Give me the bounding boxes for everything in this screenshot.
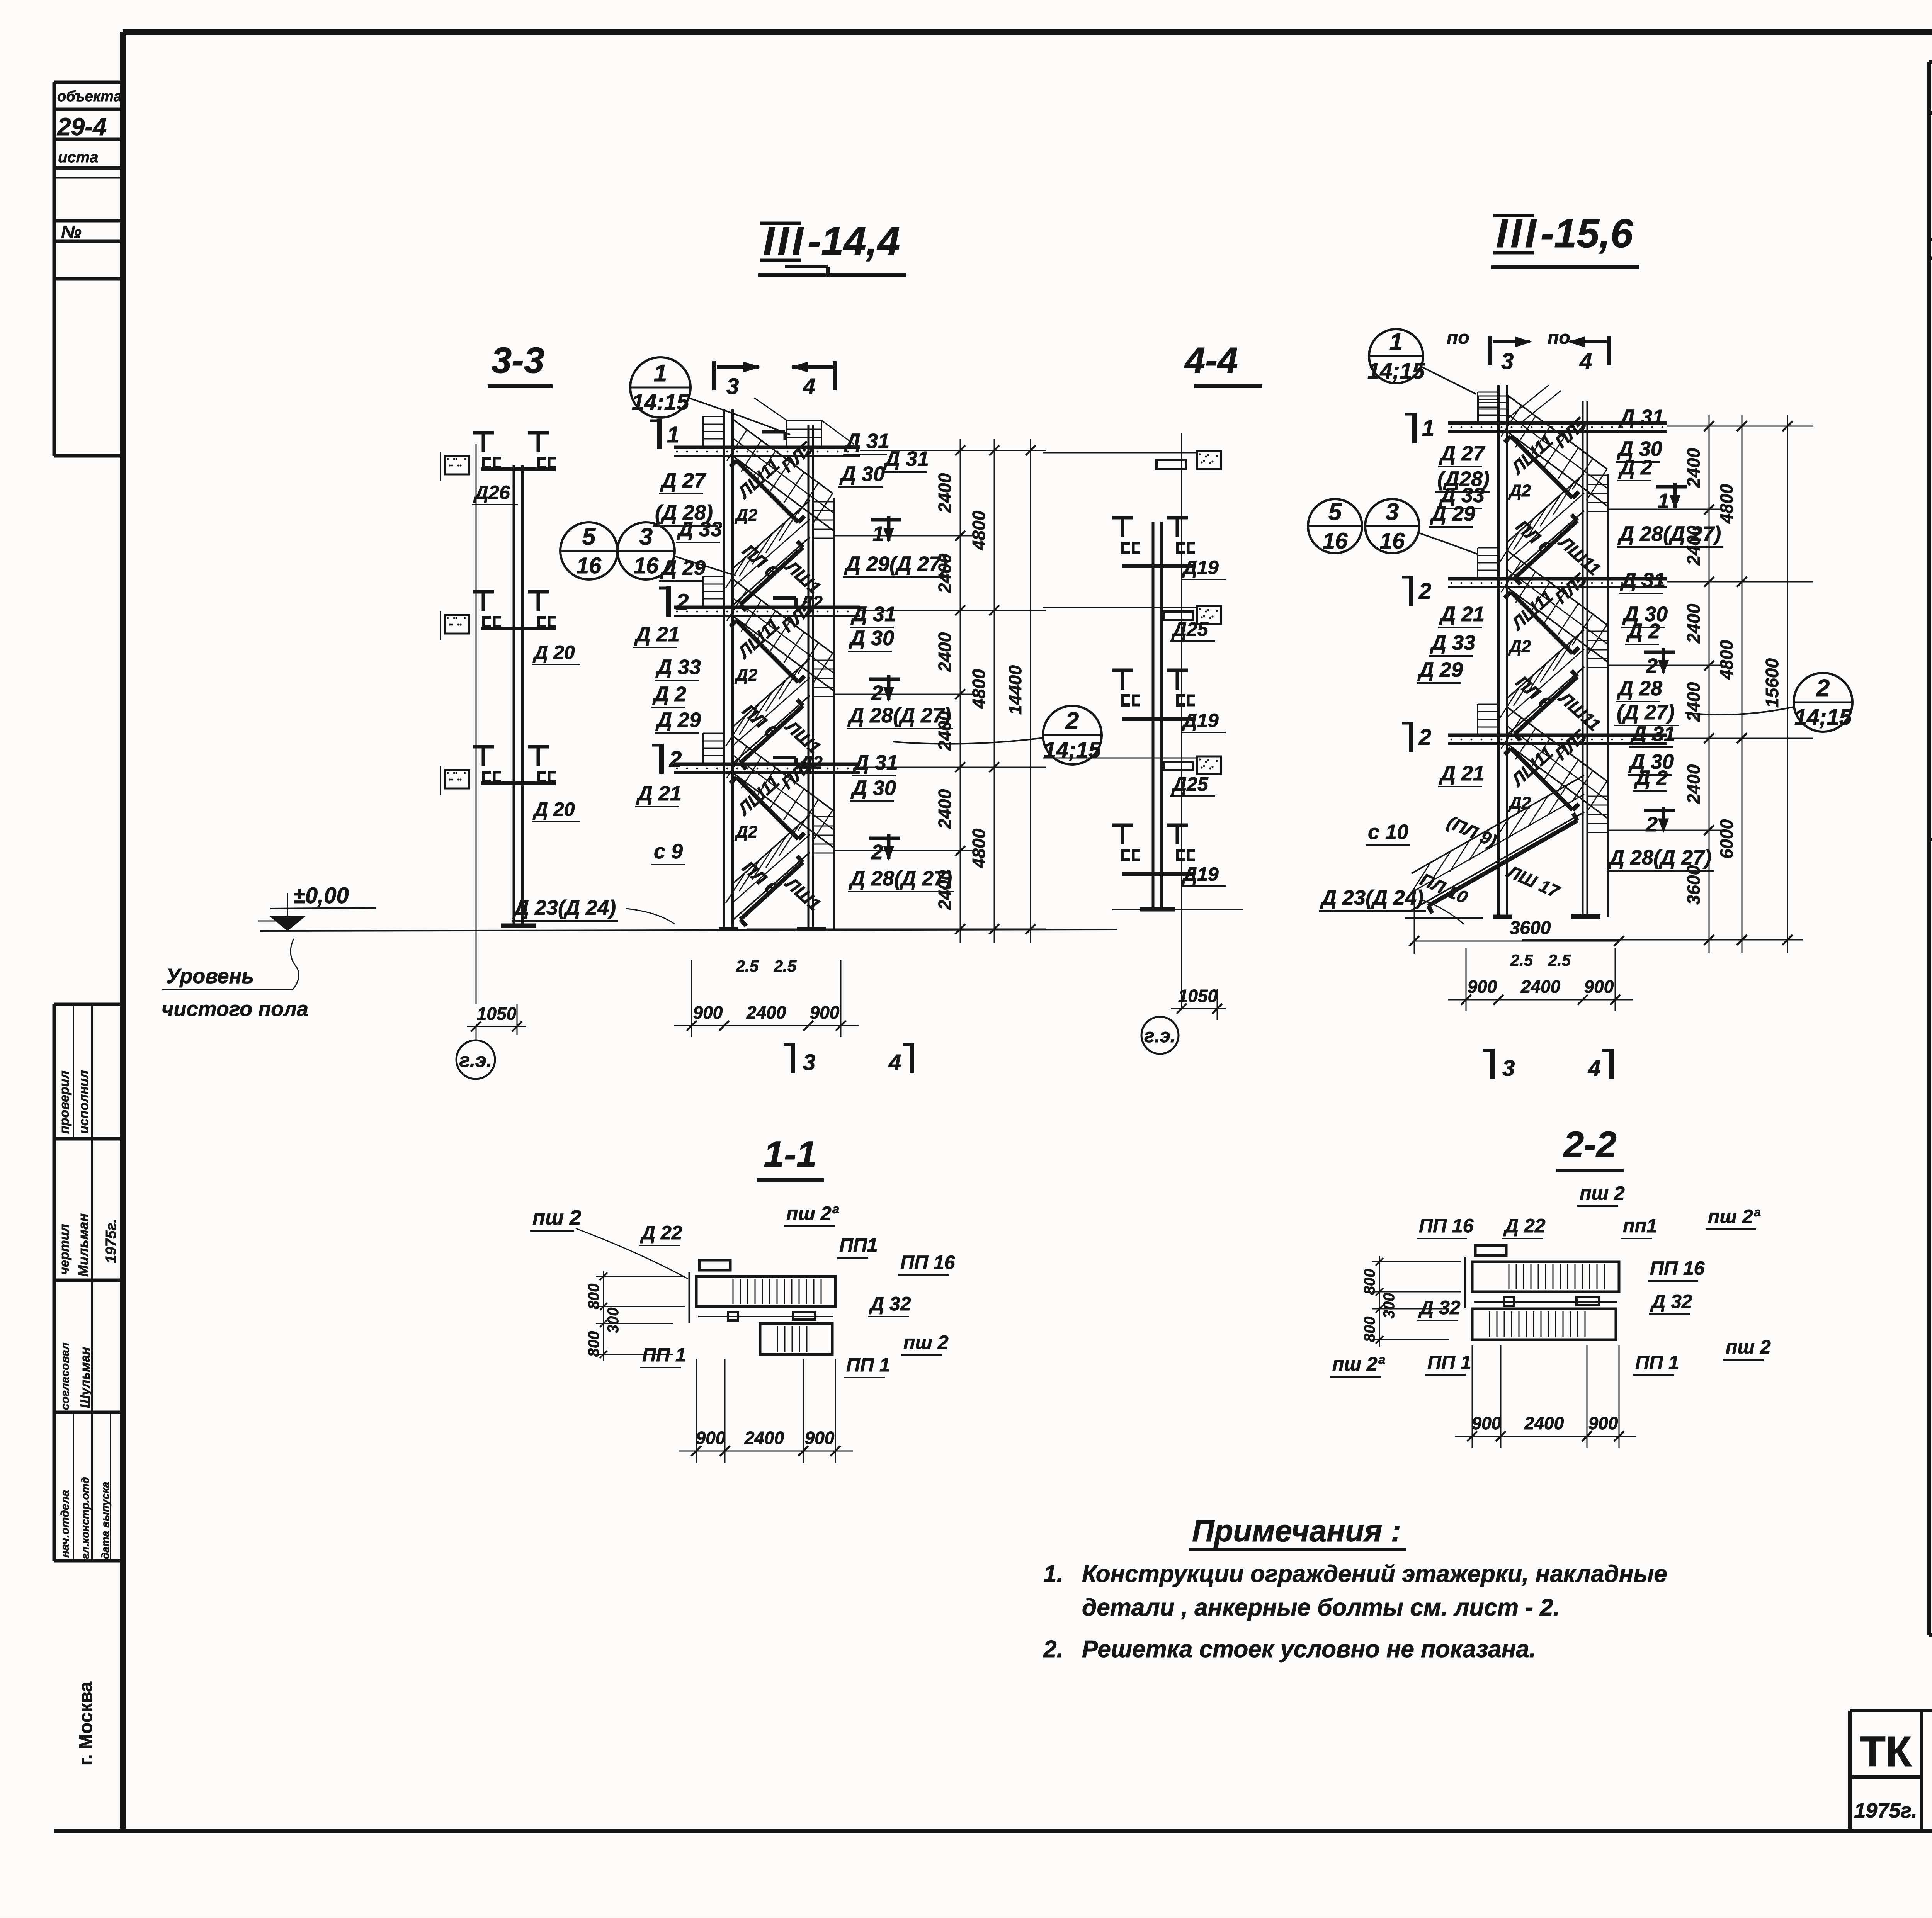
cut marks (15,6) left: [1412, 413, 1417, 443]
Д2 corner marks: [773, 596, 796, 600]
stair III-15,6 flight down-right 1: [1507, 395, 1607, 469]
svg-text:Д 30: Д 30: [849, 627, 894, 650]
svg-text:16: 16: [634, 553, 659, 578]
stair III-14,4 platform 2: [674, 606, 860, 609]
sheet frame: [123, 29, 1932, 35]
svg-text:1: 1: [654, 360, 667, 387]
svg-text:Мильман: Мильман: [75, 1213, 91, 1277]
svg-text:Д2: Д2: [1508, 793, 1531, 812]
svg-text:2: 2: [1646, 813, 1658, 836]
svg-text:900: 900: [1584, 977, 1614, 997]
svg-text:чертил: чертил: [57, 1224, 72, 1275]
svg-text:Д 31: Д 31: [850, 603, 896, 626]
svg-text:Д 20: Д 20: [532, 642, 575, 663]
stair III-14,4 cropped upper flight: [786, 420, 787, 447]
svg-text:пш 2: пш 2: [903, 1332, 949, 1353]
svg-text:№: №: [61, 222, 82, 242]
stair III-14,4 flight down-left 3: [733, 815, 810, 884]
plan left wall tick: [689, 1272, 690, 1323]
svg-text:1: 1: [667, 422, 679, 447]
svg-text:Д25: Д25: [1171, 618, 1209, 640]
svg-text:Д 21: Д 21: [1439, 762, 1485, 785]
section 4-4 bracket level 1: [1112, 516, 1133, 520]
stair III-14,4 landing rail block 3: [812, 817, 814, 853]
svg-text:III: III: [763, 219, 806, 264]
dimension top extension line: [1039, 450, 1046, 451]
stair III-14,4 stringer 1b: [740, 547, 803, 605]
svg-text:15600: 15600: [1762, 658, 1782, 708]
section 3-3 slab level 2: [445, 615, 469, 634]
stair III-14,4 landing rail block 1: [812, 502, 814, 538]
grid mark г.э. 4-4: [1141, 1017, 1179, 1054]
svg-text:4800: 4800: [969, 669, 989, 709]
stair III-15,6 stringer 3a: [1511, 748, 1573, 810]
svg-text:4800: 4800: [1716, 484, 1736, 524]
svg-text:пш 2ª: пш 2ª: [786, 1203, 839, 1224]
svg-text:чистого пола: чистого пола: [162, 997, 308, 1021]
svg-text:Д 20: Д 20: [532, 798, 575, 820]
svg-text:300: 300: [1381, 1293, 1398, 1319]
svg-text:Д 29: Д 29: [1430, 502, 1475, 525]
section 3-3 extension line: [476, 444, 477, 1004]
stair III-15,6 stringer 1b: [1515, 521, 1577, 578]
svg-text:Решетка стоек условно не: Решетка стоек условно не показана.: [1082, 1636, 1536, 1663]
view bubble 1 14;15 (15,6): [1369, 329, 1423, 383]
stair III-15,6 landing rail block 2: [1587, 631, 1588, 668]
section 3-3 bracket level 2: [473, 590, 494, 594]
svg-text:3600: 3600: [1510, 918, 1551, 938]
section 4-4 slab stub level 2: [1197, 606, 1221, 624]
svg-text:800: 800: [1361, 1269, 1378, 1295]
svg-text:1050: 1050: [477, 1004, 517, 1024]
svg-text:Д2: Д2: [1508, 481, 1531, 500]
svg-text:16: 16: [1323, 528, 1348, 554]
plan lower flight bar: [760, 1323, 832, 1354]
svg-text:Д19: Д19: [1182, 710, 1219, 731]
bubbles 5/16 3/16 (15,6): [1308, 499, 1362, 553]
svg-text:1: 1: [1422, 416, 1434, 441]
svg-text:Д 31: Д 31: [1620, 569, 1665, 592]
section 3-3 bracket level 1: [473, 431, 494, 435]
svg-text:2400: 2400: [746, 1002, 786, 1023]
plan lower flight bar: [1472, 1309, 1616, 1340]
stair III-15,6 stringer 2b: [1515, 677, 1577, 734]
svg-text:пш 2ª: пш 2ª: [1708, 1206, 1761, 1227]
svg-text:Шульман: Шульман: [78, 1347, 93, 1408]
section 3-3 bracket level 3: [473, 745, 494, 749]
svg-text:5: 5: [582, 523, 596, 550]
stair III-14,4 stringer 2b: [740, 706, 803, 763]
section 4-4 slab stub level 3: [1197, 756, 1221, 774]
svg-text:Д 28(Д 27): Д 28(Д 27): [1608, 846, 1711, 869]
svg-text:Д 33: Д 33: [655, 656, 701, 679]
stair III-15,6 stringer 1a: [1511, 436, 1573, 498]
svg-text:2400: 2400: [1684, 448, 1704, 488]
svg-text:2400: 2400: [935, 789, 955, 829]
svg-text:2: 2: [871, 841, 883, 864]
svg-text:Д 2: Д 2: [1634, 766, 1668, 790]
svg-text:3: 3: [639, 523, 653, 550]
svg-text:дата выпуска: дата выпуска: [99, 1482, 111, 1559]
svg-text:Д 32: Д 32: [1650, 1291, 1692, 1312]
svg-text:г.э.: г.э.: [459, 1049, 492, 1072]
dimension chain 2400: [960, 439, 961, 943]
svg-text:Д 28(Д 27): Д 28(Д 27): [1617, 522, 1721, 545]
svg-text:2: 2: [676, 590, 689, 615]
ground line: [260, 929, 1117, 931]
svg-text:300: 300: [605, 1308, 622, 1334]
svg-text:2400: 2400: [1684, 764, 1704, 804]
plan left wall tick: [1464, 1257, 1466, 1308]
svg-text:ПП 16: ПП 16: [900, 1252, 956, 1273]
svg-text:14;15: 14;15: [1794, 705, 1852, 730]
stair III-14,4 left rail block 3: [702, 733, 704, 763]
svg-text:Д 29: Д 29: [660, 556, 706, 579]
title block frame: [1850, 1709, 1932, 1712]
stair III-14,4 left column: [723, 409, 725, 929]
svg-text:Д 31: Д 31: [1630, 722, 1675, 746]
svg-text:Д 32: Д 32: [1418, 1297, 1461, 1318]
svg-text:2400: 2400: [935, 632, 955, 672]
plan top small plate: [699, 1260, 730, 1270]
svg-text:1.: 1.: [1043, 1561, 1063, 1587]
svg-text:Д 23(Д 24): Д 23(Д 24): [512, 896, 616, 919]
svg-text:ТК: ТК: [1860, 1728, 1912, 1775]
stair III-14,4 platform 3: [674, 763, 860, 766]
svg-text:Д 33: Д 33: [677, 518, 722, 541]
svg-text:4800: 4800: [969, 828, 989, 868]
svg-text:6000: 6000: [1716, 819, 1736, 859]
svg-text:Д 23(Д 24): Д 23(Д 24): [1320, 886, 1423, 909]
svg-text:Д 27: Д 27: [660, 469, 707, 492]
svg-text:2400: 2400: [1524, 1413, 1564, 1433]
svg-text:4: 4: [803, 374, 815, 399]
svg-text:2: 2: [1646, 654, 1658, 678]
svg-text:4: 4: [1588, 1056, 1600, 1081]
svg-text:2.5: 2.5: [774, 957, 797, 975]
selection table outer: [1929, 60, 1932, 64]
TK box: [1850, 1775, 1921, 1779]
svg-text:Д 21: Д 21: [634, 623, 680, 646]
stair III-14,4 flight down-right 3: [733, 736, 833, 810]
corner marks top: [785, 265, 828, 268]
svg-text:4: 4: [888, 1050, 901, 1075]
stair III-14,4 stringer 1a: [736, 460, 798, 522]
svg-text:III: III: [1496, 211, 1539, 256]
svg-text:29-4: 29-4: [57, 113, 107, 141]
svg-text:2-2: 2-2: [1563, 1124, 1616, 1165]
svg-text:1-1: 1-1: [764, 1134, 816, 1175]
left stamp bottom boxes: [54, 1003, 123, 1006]
svg-text:2: 2: [1418, 579, 1431, 604]
svg-text:с 9: с 9: [654, 840, 683, 863]
ground line 4-4: [1112, 909, 1243, 910]
svg-text:Д 2: Д 2: [1618, 456, 1652, 479]
svg-text:Д 31: Д 31: [883, 447, 929, 471]
svg-text:4: 4: [1579, 349, 1592, 374]
svg-text:Д 29: Д 29: [655, 708, 701, 732]
svg-text:900: 900: [1472, 1413, 1502, 1433]
svg-text:16: 16: [577, 553, 602, 578]
svg-text:2400: 2400: [1520, 977, 1561, 997]
svg-text:3: 3: [726, 374, 739, 399]
plan middle plates: [1474, 1301, 1617, 1303]
svg-text:3: 3: [1386, 499, 1399, 525]
svg-text:Д 28(Д 27): Д 28(Д 27): [847, 704, 951, 727]
svg-text:Д 31: Д 31: [844, 430, 889, 453]
svg-text:ПП 16: ПП 16: [1419, 1215, 1474, 1237]
stair III-14,4 left rail block 2: [702, 576, 704, 606]
svg-text:14:15: 14:15: [632, 390, 689, 415]
svg-text:900: 900: [1468, 977, 1497, 997]
dimension 1050 under 4-4: [1217, 989, 1218, 1020]
svg-text:Д2: Д2: [798, 753, 823, 773]
view bubble 2 14;15 (15,6): [1794, 673, 1852, 732]
bottom section marks 3 4: [791, 1043, 795, 1073]
svg-text:Примечания :: Примечания :: [1192, 1514, 1401, 1548]
dimension bottom extension line: [747, 929, 1046, 930]
plan top small plate: [1475, 1245, 1506, 1255]
stair III-15,6 flight down-right 3: [1507, 707, 1607, 781]
svg-text:Д 27: Д 27: [1439, 442, 1486, 465]
svg-text:1975г.: 1975г.: [103, 1219, 119, 1263]
svg-text:Д2: Д2: [1508, 637, 1531, 656]
svg-text:г.э.: г.э.: [1144, 1025, 1175, 1046]
stair III-14,4 flight down-right 2: [733, 579, 833, 654]
dimension mid extension lines: [834, 535, 974, 537]
svg-text:1050: 1050: [1178, 986, 1218, 1006]
svg-text:Д19: Д19: [1182, 863, 1219, 885]
svg-text:нач.отдела: нач.отдела: [59, 1490, 71, 1558]
svg-text:1: 1: [1658, 489, 1669, 513]
cut marks mid right: [871, 518, 901, 522]
svg-text:3: 3: [1501, 349, 1514, 374]
top section mark 3: [712, 361, 716, 390]
stair III-15,6 bottom ground line: [1405, 917, 1483, 919]
stair III-14,4 left rail block 1: [702, 416, 704, 447]
stair III-15,6 long bottom flight: [1412, 775, 1584, 873]
svg-text:Д 31: Д 31: [852, 751, 898, 774]
svg-text:исполнил: исполнил: [77, 1070, 91, 1134]
svg-text:Д 21: Д 21: [1439, 603, 1485, 626]
section 4-4 extension line: [1181, 433, 1182, 1009]
svg-text:ПП 1: ПП 1: [1427, 1352, 1471, 1373]
svg-text:Д 21: Д 21: [636, 782, 682, 805]
svg-text:Д26: Д26: [473, 482, 510, 503]
stair III-15,6 flight down-left 2: [1507, 630, 1584, 698]
svg-text:пп1: пп1: [1623, 1215, 1657, 1237]
view bubble 2 14:15: [1043, 706, 1102, 764]
svg-text:2: 2: [1065, 708, 1079, 734]
svg-text:14400: 14400: [1005, 665, 1025, 715]
section 4-4 bracket level 3: [1112, 824, 1133, 827]
svg-text:ПП 1: ПП 1: [1635, 1352, 1679, 1373]
plan left dims 800 300 800: [596, 1276, 685, 1277]
stair III-14,4 stringer 3a: [736, 777, 798, 839]
svg-text:800: 800: [1361, 1317, 1378, 1342]
section cut mark 1 left: [657, 419, 662, 449]
stair III-15,6 platform 3: [1448, 734, 1667, 737]
svg-text:ПП1: ПП1: [839, 1234, 878, 1256]
svg-text:2400: 2400: [1684, 682, 1704, 722]
svg-text:Д 30: Д 30: [850, 776, 896, 800]
svg-text:900: 900: [696, 1428, 726, 1448]
svg-text:900: 900: [805, 1428, 835, 1448]
svg-text:-14,4: -14,4: [808, 219, 900, 264]
svg-text:Д 22: Д 22: [640, 1222, 682, 1244]
svg-text:2.5: 2.5: [1548, 951, 1571, 969]
svg-text:4-4: 4-4: [1184, 340, 1238, 381]
stair III-15,6 left column: [1497, 385, 1500, 917]
svg-text:14;15: 14;15: [1044, 737, 1101, 763]
stair III-14,4 stringer 2a: [736, 620, 798, 682]
svg-text:900: 900: [810, 1002, 840, 1023]
dimension bottom extension line: [1522, 939, 1803, 941]
svg-text:4800: 4800: [1716, 640, 1736, 680]
stair III-14,4 stringer 3b: [740, 862, 803, 919]
stair III-14,4 flight down-right 1: [733, 419, 833, 494]
svg-text:пш 2: пш 2: [1726, 1336, 1771, 1358]
stair III-15,6 left rail block 3: [1477, 704, 1478, 734]
table group separator: [1929, 838, 1932, 841]
dimension top extension line: [1803, 426, 1813, 427]
svg-text:900: 900: [1588, 1413, 1618, 1433]
stair III-14,4 right column: [808, 425, 810, 929]
stair III-15,6 landing rail block 1: [1587, 475, 1588, 511]
cut marks (15,6) right: [1656, 485, 1687, 489]
svg-text:2400: 2400: [1684, 603, 1704, 644]
svg-text:4800: 4800: [969, 510, 989, 550]
stair III-15,6 stringer 2a: [1511, 592, 1573, 654]
svg-text:5: 5: [1328, 499, 1342, 525]
svg-text:14;15: 14;15: [1367, 358, 1425, 384]
svg-text:2: 2: [1418, 725, 1431, 750]
plan dimension 900-2400-900: [1472, 1345, 1473, 1448]
section 3-3 slab level 3: [445, 770, 469, 788]
dimension chain 4800: [1742, 415, 1743, 953]
plan upper flight bar: [696, 1276, 835, 1306]
svg-text:Д 30: Д 30: [839, 462, 885, 486]
stair III-15,6 right column: [1582, 401, 1584, 917]
stair III-15,6 flight down-right 2: [1507, 550, 1607, 625]
section 4-4 bracket level 2: [1112, 669, 1133, 672]
svg-text:3: 3: [803, 1050, 815, 1075]
svg-text:800: 800: [585, 1331, 602, 1357]
svg-text:пш 2: пш 2: [1580, 1182, 1625, 1204]
svg-text:1: 1: [1389, 329, 1403, 355]
dimension 3600 (15,6): [1414, 888, 1415, 954]
dimension chain 4800: [994, 439, 995, 943]
svg-text:16: 16: [1380, 528, 1405, 554]
svg-text:согласовал: согласовал: [59, 1342, 71, 1410]
stair III-14,4 flight down-left 1: [733, 500, 810, 569]
svg-text:проверил: проверил: [57, 1070, 72, 1134]
left stamp top boxes: [54, 81, 123, 84]
svg-text:Д25: Д25: [1171, 773, 1209, 795]
svg-text:3: 3: [1502, 1056, 1515, 1081]
plan upper flight bar: [1472, 1262, 1619, 1292]
svg-text:ПП 16: ПП 16: [1650, 1257, 1705, 1279]
dimension chain total: [1787, 415, 1788, 953]
dimension 1050 under 3-3: [517, 1004, 518, 1035]
svg-text:гл.констр.отд: гл.констр.отд: [79, 1477, 91, 1559]
svg-text:Д 29(Д 27): Д 29(Д 27): [844, 552, 947, 576]
grid mark г.э.: [456, 1040, 495, 1079]
svg-text:пш 2: пш 2: [532, 1206, 581, 1229]
svg-text:800: 800: [585, 1284, 602, 1310]
svg-text:Конструкции ограждений этаже: Конструкции ограждений этажерки, накладн…: [1082, 1561, 1667, 1587]
svg-text:±0,00: ±0,00: [293, 883, 349, 908]
svg-text:(Д 27): (Д 27): [1617, 701, 1675, 724]
section 4-4 column stand: [1152, 522, 1155, 909]
svg-text:по: по: [1447, 328, 1469, 348]
svg-text:Д 33: Д 33: [1430, 631, 1475, 654]
svg-text:Д 31: Д 31: [1618, 406, 1664, 429]
stair III-15,6 left rail block 2: [1477, 548, 1478, 578]
section 4-4 slab stub level 1: [1197, 451, 1221, 469]
cut marks mid left: [666, 586, 671, 617]
svg-text:Д2: Д2: [734, 822, 758, 841]
svg-text:900: 900: [693, 1002, 723, 1023]
svg-text:г. Москва: г. Москва: [76, 1682, 96, 1765]
bottom section marks 3 4 (15,6): [1490, 1049, 1495, 1079]
svg-text:иста: иста: [58, 149, 99, 166]
stair III-15,6 platform 2: [1448, 577, 1667, 581]
bottom dimension 900-2400-900: [691, 960, 692, 1037]
svg-text:ПП 1: ПП 1: [846, 1354, 890, 1376]
svg-text:Д 32: Д 32: [869, 1293, 911, 1315]
svg-text:3-3: 3-3: [491, 340, 544, 381]
svg-text:детали , анкерные болты см.: детали , анкерные болты см. лист - 2.: [1082, 1594, 1560, 1621]
dimension chain total: [1030, 439, 1031, 943]
plan middle plates: [698, 1316, 833, 1317]
plan left dims 800 300 800: [1372, 1261, 1461, 1262]
svg-text:Д 22: Д 22: [1503, 1215, 1546, 1237]
stair III-15,6 left rail block 1: [1477, 392, 1478, 422]
svg-text:по: по: [1548, 328, 1570, 348]
svg-text:1975г.: 1975г.: [1854, 1799, 1917, 1822]
stair III-15,6 landing rail block 3: [1587, 796, 1588, 832]
svg-text:Д2: Д2: [734, 506, 758, 525]
svg-text:с 10: с 10: [1368, 821, 1408, 844]
stair III-15,6 flight down-left 1: [1507, 474, 1584, 542]
svg-text:2: 2: [871, 681, 883, 705]
bubbles 5/16 3/16: [560, 522, 617, 579]
stair III-14,4 platform 1: [674, 446, 860, 449]
svg-text:-15,6: -15,6: [1541, 211, 1633, 256]
svg-text:2400: 2400: [744, 1428, 784, 1448]
section 3-3 slab level 1: [445, 456, 469, 474]
svg-text:Д 29: Д 29: [1417, 658, 1463, 681]
svg-text:2400: 2400: [935, 473, 955, 513]
dimension chain 2400: [1709, 415, 1710, 953]
section 3-3 column stand: [513, 465, 515, 926]
svg-text:Д 2: Д 2: [1626, 620, 1660, 643]
stair III-15,6 cropped upper flight: [1478, 396, 1479, 422]
svg-text:пш 2ª: пш 2ª: [1332, 1353, 1385, 1375]
svg-text:1: 1: [872, 522, 884, 545]
svg-text:2.5: 2.5: [736, 957, 759, 975]
svg-text:2.5: 2.5: [1510, 951, 1533, 969]
svg-text:Д2: Д2: [734, 666, 758, 685]
svg-text:Д2: Д2: [798, 592, 823, 612]
svg-text:Д 28: Д 28: [1617, 677, 1662, 700]
stair III-15,6 platform 1: [1448, 421, 1667, 425]
svg-text:Д 2: Д 2: [652, 683, 686, 706]
svg-text:Д19: Д19: [1182, 557, 1219, 578]
svg-text:Уровень: Уровень: [166, 965, 254, 988]
svg-text:2.: 2.: [1043, 1636, 1063, 1663]
